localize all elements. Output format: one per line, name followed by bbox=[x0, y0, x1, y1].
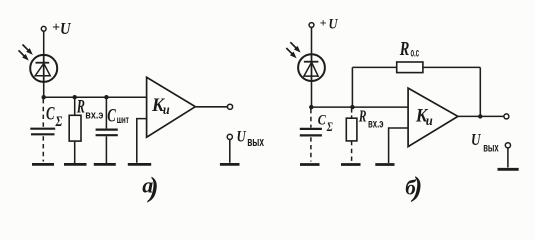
svg-text:U: U bbox=[60, 19, 71, 38]
svg-text:U: U bbox=[237, 128, 247, 145]
svg-text:C: C bbox=[318, 113, 327, 129]
svg-text:Σ: Σ bbox=[55, 114, 63, 130]
svg-text:шнт: шнт bbox=[117, 115, 129, 126]
svg-text:вх.э: вх.э bbox=[368, 119, 384, 131]
svg-text:вх.э: вх.э bbox=[85, 110, 103, 122]
svg-text:U: U bbox=[329, 17, 339, 33]
svg-text:U: U bbox=[471, 130, 481, 149]
svg-text:о.с: о.с bbox=[411, 46, 420, 60]
svg-text:и: и bbox=[163, 103, 170, 118]
svg-text:C: C bbox=[107, 105, 116, 126]
svg-text:R: R bbox=[399, 39, 409, 60]
svg-text:вых: вых bbox=[483, 140, 499, 154]
svg-text:C: C bbox=[46, 104, 55, 125]
svg-text:+: + bbox=[320, 15, 327, 29]
svg-text:R: R bbox=[76, 97, 85, 118]
svg-text:Σ: Σ bbox=[326, 119, 333, 134]
svg-text:и: и bbox=[426, 114, 433, 129]
svg-text:R: R bbox=[358, 107, 366, 126]
svg-text:вых: вых bbox=[247, 135, 264, 149]
svg-text:+: + bbox=[52, 21, 60, 36]
